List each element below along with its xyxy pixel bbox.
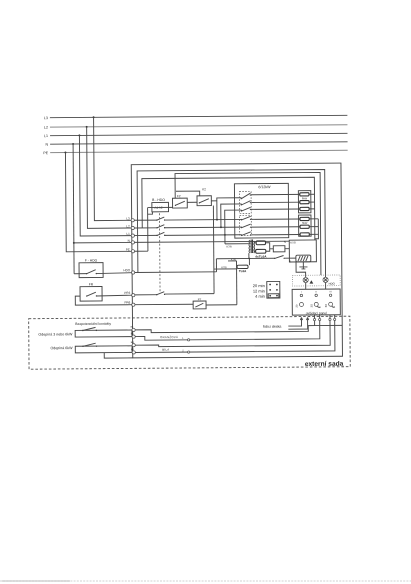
terminal PE [131, 250, 134, 253]
junction L2 drop [86, 126, 88, 128]
svg-text:K7/8: K7/8 [227, 246, 233, 249]
wire return bus B [315, 219, 319, 239]
wire HDO internal [135, 271, 217, 274]
svg-text:FR: FR [89, 283, 94, 287]
svg-text:Odepíná 6kW: Odepíná 6kW [50, 346, 73, 350]
enclosure box unit [131, 163, 342, 358]
wire TL branch down [248, 258, 250, 265]
wire N supply rail [50, 142, 347, 144]
switch contactor pole 4 [241, 216, 251, 220]
svg-text:HDO: HDO [123, 268, 130, 272]
svg-text:4 min: 4 min [255, 294, 265, 299]
wire PT riser [236, 261, 238, 305]
heater bank 1 outline [298, 191, 311, 213]
wire L3 drop [94, 117, 132, 221]
terminal E3 [132, 344, 135, 347]
ground [299, 262, 307, 269]
wire transformer secondary top [254, 242, 256, 244]
switch TL contact [274, 256, 285, 259]
switch K2 contact [199, 199, 209, 204]
switch main contact L1 [156, 232, 165, 236]
wire TL feed [216, 257, 274, 259]
wire L1 phase to contactor [165, 234, 242, 237]
wire heater feed 1 [251, 193, 300, 195]
resistor R1 secondary [256, 241, 265, 245]
wire K2 bottom riser to PR3 [212, 206, 215, 294]
wire FR left loop to PR6 [75, 296, 131, 305]
resistor element 4 [300, 217, 309, 220]
svg-text:L2: L2 [126, 224, 130, 228]
splice pin 1 [188, 339, 190, 341]
relay K2 [197, 196, 211, 206]
junction riser L1 [224, 234, 226, 236]
junction riser L2 [220, 226, 222, 228]
wire resistor return 1 [309, 193, 314, 195]
transformer TR [249, 240, 255, 254]
panel terminal 1 [313, 318, 315, 320]
wire HDO riser [215, 259, 217, 272]
wire B-HDO to F2 [148, 206, 173, 208]
control board box K7/8 [289, 240, 316, 262]
svg-text:ovládací panel: ovládací panel [306, 311, 328, 315]
wire L3 supply rail [50, 115, 347, 117]
arrow to panel 1 [288, 317, 302, 326]
wire PR3 internal [135, 294, 157, 296]
svg-text:K2: K2 [202, 187, 206, 191]
svg-text:N: N [128, 239, 130, 243]
panel column 1 [295, 292, 304, 308]
resistor element 2 [300, 201, 309, 204]
lamp HDO [323, 277, 328, 282]
wire A1 to PE riser [148, 212, 153, 214]
wire L1 phase internal [134, 234, 157, 236]
svg-text:4xTL6A: 4xTL6A [255, 255, 267, 259]
wire E4 to panel t4 white [135, 321, 335, 353]
svg-text:F - HDO: F - HDO [85, 258, 98, 262]
svg-text:B - HDO: B - HDO [152, 198, 165, 202]
wire HDO loop W2 [137, 169, 325, 278]
svg-text:PR6: PR6 [124, 301, 130, 305]
svg-text:6O: 6O [324, 304, 328, 308]
wire D1 to control board [285, 248, 289, 250]
switch contactor pole 2 [241, 201, 251, 206]
wire L3 phase to contactor [165, 218, 242, 221]
wire heater feed 2 [251, 201, 300, 203]
resistor element 3 [300, 207, 309, 210]
external kit dashed box [29, 316, 351, 369]
wire K7/6 stub [228, 260, 236, 262]
svg-text:Odepíná 3 nebo 6kW: Odepíná 3 nebo 6kW [38, 332, 73, 336]
switch main contact L2 [156, 225, 165, 229]
wire L3 phase internal [134, 219, 157, 221]
junction PE drop [64, 152, 66, 154]
svg-text:20 min: 20 min [253, 283, 265, 288]
terminal E1 [132, 328, 135, 331]
lamp warning [303, 277, 308, 282]
wire FR to PR3 terminal [96, 294, 131, 297]
relay F2 [173, 198, 188, 208]
junction N drop [72, 143, 74, 145]
page bottom scan line [0, 580, 411, 582]
wire transformer primary bottom [248, 253, 250, 258]
wire resistor return 2 [309, 201, 314, 203]
thermostat PT box [193, 301, 206, 309]
wire lamp2 down [325, 282, 327, 289]
junction L1 drop [78, 134, 80, 136]
svg-text:L: L [290, 259, 292, 263]
wire N drop [73, 144, 74, 274]
terminal HDO [131, 271, 134, 274]
wire F2 to K2 [187, 201, 197, 203]
connector X1 hatched [296, 255, 311, 262]
wire E2 to panel t2 orange [135, 321, 320, 341]
switch F2 contact [175, 201, 185, 206]
terminal N [131, 241, 134, 244]
svg-text:L1: L1 [44, 134, 48, 138]
warning triangle [309, 280, 313, 283]
wire E3 to panel t3 [135, 321, 330, 347]
switch row 1 [82, 327, 97, 331]
heater bank 2 outline [299, 215, 312, 236]
wire PT to riser [206, 304, 237, 306]
junction N terminal branch [73, 242, 75, 244]
svg-text:PE: PE [43, 151, 48, 155]
svg-text:ORANŽOVÁ: ORANŽOVÁ [160, 334, 178, 339]
terminal PR6 [132, 303, 135, 306]
wire L1 supply rail [50, 133, 347, 135]
wire N terminal branch [74, 241, 131, 243]
wire L2 drop [87, 127, 131, 229]
svg-text:Bezpotenciální kontakty: Bezpotenciální kontakty [75, 322, 111, 326]
switch contactor pole 5 [241, 224, 251, 228]
switch PT contact [195, 303, 203, 307]
wire panel t1 branch [315, 324, 343, 326]
junction L3 drop [93, 116, 95, 118]
terminal L3 [131, 219, 134, 222]
resistor element 1 [300, 193, 309, 196]
jumper block time select [267, 281, 280, 298]
choke C2 4xTL6A [256, 249, 266, 253]
wire heater feed 4 [251, 218, 300, 220]
wire resistor return 3 [309, 208, 314, 210]
wire resistor return 4 [309, 218, 318, 220]
svg-text:6kW: 6kW [302, 196, 308, 200]
panel terminal 3 [329, 318, 331, 320]
svg-text:6kW: 6kW [302, 221, 308, 225]
terminal L2 [131, 226, 134, 229]
resistor element 6 [300, 233, 309, 236]
contact row 2 box [75, 346, 132, 353]
svg-text:L3: L3 [126, 217, 130, 221]
wire enclosure bottom extension [104, 352, 133, 358]
wire K2 output [211, 200, 216, 202]
arrow to panel 2 [288, 317, 308, 329]
svg-text:PE: PE [126, 248, 130, 252]
switch F-HDO box [79, 263, 103, 278]
terminal PR3 [132, 294, 135, 297]
svg-text:N: N [45, 143, 48, 147]
thermal fuse TL6A [237, 265, 248, 268]
wire L2 supply rail [50, 125, 347, 127]
wire L2 electronics loop W4 [142, 177, 315, 241]
svg-text:externí sada: externí sada [305, 361, 344, 368]
svg-text:TL6A: TL6A [239, 269, 247, 273]
svg-text:BÍLÁ: BÍLÁ [162, 348, 169, 352]
panel column 3 [324, 291, 335, 307]
switch PR3 contact [156, 292, 165, 296]
switch row 2 [82, 343, 97, 347]
switch contactor pole 3 [241, 207, 251, 211]
resistor element 5 [300, 225, 309, 228]
wire resistor return 6 [309, 233, 318, 235]
indicator dotted box [292, 275, 340, 286]
relay B-HDO [152, 202, 169, 211]
svg-text:L1: L1 [126, 232, 130, 236]
switch main contact L3 [156, 217, 165, 221]
contactor box 6/12kW [234, 183, 288, 238]
wire F-HDO to HDO terminal [96, 272, 131, 275]
svg-text:6/12kW: 6/12kW [258, 185, 271, 189]
wire F2 supply loop W3 [175, 172, 321, 276]
wire PE drop [65, 152, 131, 252]
contactor group K1 dashed [239, 192, 251, 214]
wire lamp1 feed [296, 262, 306, 278]
terminal E4 [132, 351, 135, 354]
wire K7/8 stub [214, 268, 237, 270]
wire F2 K2 top bridge [176, 191, 200, 196]
contact row 1 box [75, 330, 132, 337]
terminal L1 [131, 234, 134, 237]
wire transformer to choke [254, 250, 256, 252]
wire PE supply rail [50, 150, 347, 152]
wire heater feed 6 [251, 233, 300, 235]
contactor group K2 dashed [240, 215, 252, 235]
wire riser L1 down to transformer [224, 235, 226, 244]
wire PR6 internal [135, 303, 193, 305]
wire E1 to panel t1 [135, 321, 315, 333]
svg-text:HDO: HDO [329, 282, 336, 286]
wire choke to D1 [266, 249, 270, 251]
mechanical link dashed [158, 213, 161, 291]
terminal E2 [132, 335, 135, 338]
svg-text:PT: PT [198, 297, 202, 301]
wire PR3 to riser [165, 293, 214, 295]
wire PE internal [135, 250, 148, 252]
junction TL branch [248, 258, 250, 260]
wire heater feed 5 [251, 226, 300, 228]
wire R1 to D1 [265, 243, 273, 249]
junction riser L3 [216, 219, 218, 221]
panel column 2 [309, 291, 320, 307]
wire lamp1 down [305, 283, 307, 290]
wire riser L2 to contactor top [221, 204, 241, 227]
switch F-HDO contact [74, 270, 97, 275]
svg-text:řídící deska: řídící deska [263, 325, 282, 329]
svg-text:K7/8: K7/8 [290, 241, 296, 245]
wire transformer primary feed [225, 243, 249, 245]
splice pin 2 [188, 351, 190, 353]
svg-text:L2: L2 [44, 126, 48, 130]
wire TL contact to connector [284, 257, 296, 259]
wire N internal [134, 241, 289, 242]
switch FR contact [86, 292, 97, 297]
wire heater feed 3 [251, 208, 300, 210]
switch contactor pole 1 [241, 193, 251, 199]
rectifier module D1 [273, 246, 285, 252]
panel terminal 2 [319, 318, 321, 320]
switch contactor pole 6 [241, 232, 251, 236]
svg-text:F2: F2 [177, 194, 181, 198]
wire L2 phase to contactor [165, 226, 242, 229]
wire L2 phase internal [134, 227, 157, 229]
svg-text:3O: 3O [309, 304, 313, 308]
wire L1 drop [79, 135, 131, 236]
control panel box [292, 289, 340, 315]
relay FR box [80, 287, 102, 302]
wire resistor return 5 [309, 226, 318, 228]
wire riser L1 to contactor top [225, 210, 242, 235]
svg-text:L3: L3 [44, 116, 48, 120]
wire riser L3 to contactor top [217, 198, 241, 220]
svg-text:PR3: PR3 [124, 291, 130, 295]
panel terminal 4 [334, 318, 336, 320]
svg-text:N: N [284, 240, 286, 244]
